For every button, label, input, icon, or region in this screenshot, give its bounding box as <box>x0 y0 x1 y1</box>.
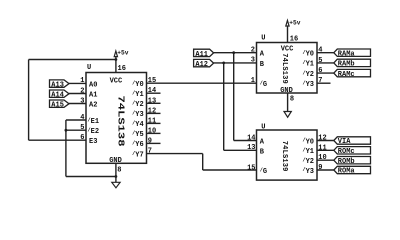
svg-text:12: 12 <box>148 107 156 115</box>
svg-text:11: 11 <box>318 144 326 152</box>
svg-text:9: 9 <box>148 137 152 145</box>
svg-text:12: 12 <box>318 135 326 143</box>
svg-text:5: 5 <box>318 57 322 65</box>
svg-text:A1: A1 <box>89 92 97 100</box>
svg-text:RAMc: RAMc <box>338 71 355 79</box>
svg-text:9: 9 <box>318 164 322 172</box>
svg-text:5: 5 <box>80 124 84 132</box>
svg-text:15: 15 <box>247 164 255 172</box>
svg-text:ROMa: ROMa <box>338 168 356 176</box>
svg-text:A0: A0 <box>89 81 97 89</box>
svg-text:11: 11 <box>148 117 156 125</box>
svg-text:1: 1 <box>251 77 255 85</box>
svg-text:RAMb: RAMb <box>338 61 355 69</box>
svg-text:ROMc: ROMc <box>338 148 355 156</box>
svg-text:RAMa: RAMa <box>338 50 356 58</box>
svg-text:14: 14 <box>148 87 156 95</box>
svg-text:14: 14 <box>247 134 255 142</box>
svg-text:16: 16 <box>290 35 298 43</box>
svg-text:+5v: +5v <box>117 50 128 57</box>
svg-text:10: 10 <box>148 127 156 135</box>
svg-text:74LS138: 74LS138 <box>115 96 125 147</box>
svg-text:13: 13 <box>148 97 156 105</box>
svg-text:2: 2 <box>80 87 84 95</box>
svg-text:A15: A15 <box>51 102 64 110</box>
svg-text:A12: A12 <box>195 61 208 69</box>
svg-text:A2: A2 <box>89 102 97 110</box>
svg-text:4: 4 <box>318 47 322 55</box>
svg-text:ROMb: ROMb <box>338 158 355 166</box>
svg-text:74LS139: 74LS139 <box>280 53 288 83</box>
svg-text:6: 6 <box>318 67 322 75</box>
svg-text:4: 4 <box>80 114 84 122</box>
svg-text:3: 3 <box>251 57 255 65</box>
svg-text:3: 3 <box>80 97 84 105</box>
svg-text:VCC: VCC <box>110 78 123 86</box>
svg-text:A11: A11 <box>195 51 208 59</box>
svg-text:VIA: VIA <box>338 138 351 146</box>
svg-text:7: 7 <box>318 77 322 85</box>
svg-text:A14: A14 <box>51 92 64 100</box>
svg-text:8: 8 <box>290 95 294 103</box>
svg-text:10: 10 <box>318 154 326 162</box>
svg-text:E3: E3 <box>89 138 97 146</box>
svg-text:16: 16 <box>118 65 126 73</box>
svg-text:7: 7 <box>148 148 152 156</box>
svg-text:VCC: VCC <box>281 45 294 53</box>
svg-text:74LS139: 74LS139 <box>280 141 288 172</box>
svg-text:8: 8 <box>117 167 121 175</box>
svg-text:6: 6 <box>80 134 84 142</box>
svg-text:+5v: +5v <box>289 20 300 27</box>
svg-text:15: 15 <box>148 77 156 85</box>
svg-text:U: U <box>87 64 91 72</box>
svg-text:GND: GND <box>109 157 122 165</box>
svg-text:A13: A13 <box>51 82 64 90</box>
svg-text:1: 1 <box>80 77 84 85</box>
svg-text:U: U <box>261 123 265 131</box>
svg-text:13: 13 <box>247 144 255 152</box>
svg-text:GND: GND <box>280 87 293 95</box>
svg-text:U: U <box>261 35 265 43</box>
svg-text:2: 2 <box>251 47 255 55</box>
